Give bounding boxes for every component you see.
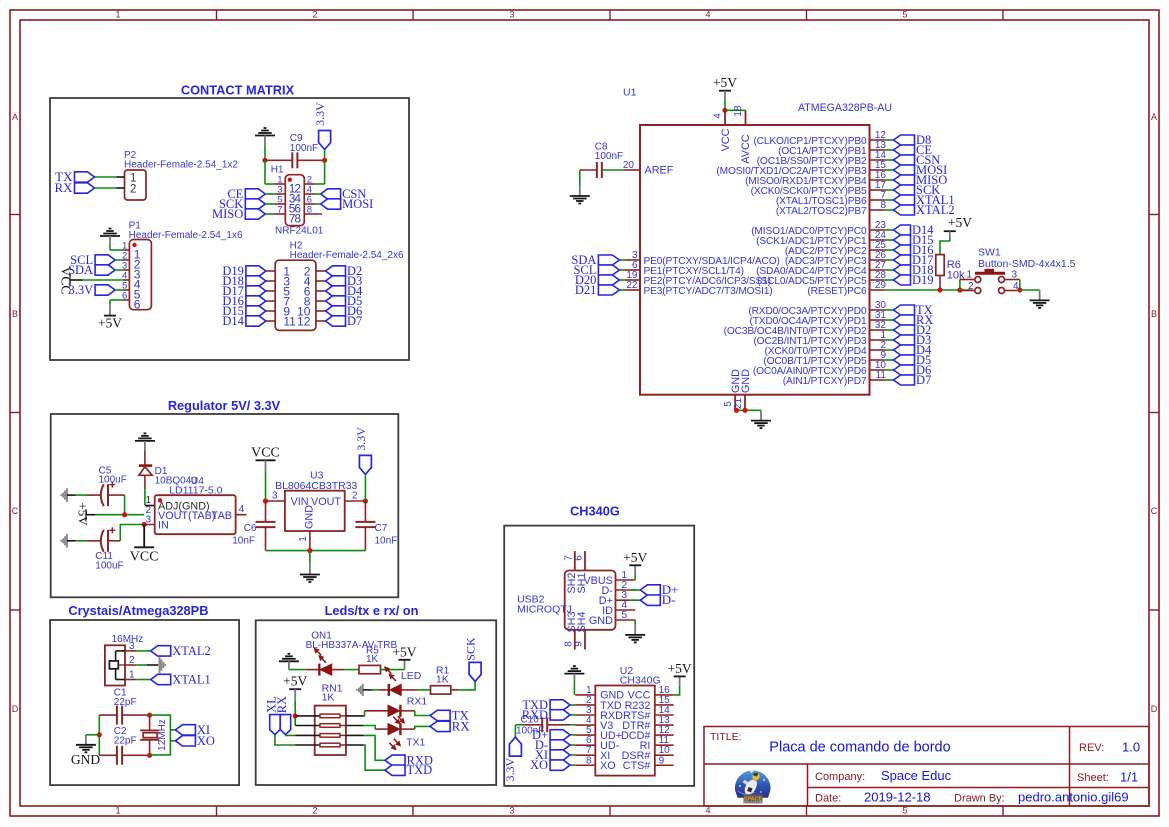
svg-text:VCC: VCC <box>251 446 280 461</box>
svg-text:16MHz: 16MHz <box>112 634 144 645</box>
svg-text:PE3(PTCY/ADC7/T3/MOSI1): PE3(PTCY/ADC7/T3/MOSI1) <box>644 286 773 297</box>
svg-text:VCC: VCC <box>130 550 159 565</box>
svg-text:D19: D19 <box>912 273 934 287</box>
svg-text:1: 1 <box>115 10 120 20</box>
svg-text:7: 7 <box>277 205 282 216</box>
svg-text:ATMEGA328PB-AU: ATMEGA328PB-AU <box>798 102 892 114</box>
svg-text:RX: RX <box>54 180 73 195</box>
svg-text:BL-HB337A-AV-TRB: BL-HB337A-AV-TRB <box>306 640 398 651</box>
svg-text:RX: RX <box>275 696 289 713</box>
svg-text:1: 1 <box>298 536 309 542</box>
svg-text:LED: LED <box>401 670 422 682</box>
svg-text:100nF: 100nF <box>595 151 623 162</box>
svg-text:CONTACT MATRIX: CONTACT MATRIX <box>181 83 295 98</box>
svg-text:2: 2 <box>352 490 358 501</box>
svg-text:1K: 1K <box>322 692 335 704</box>
svg-text:Button-SMD-4x4x1.5: Button-SMD-4x4x1.5 <box>978 258 1076 270</box>
svg-text:Leds/tx e rx/ on: Leds/tx e rx/ on <box>325 603 419 618</box>
svg-text:9: 9 <box>574 641 585 647</box>
svg-text:1K: 1K <box>436 674 449 686</box>
svg-text:TITLE:: TITLE: <box>710 731 742 743</box>
svg-text:+5V: +5V <box>392 644 416 659</box>
svg-text:NRF24L01: NRF24L01 <box>275 226 324 237</box>
svg-text:22pF: 22pF <box>114 736 137 747</box>
svg-text:D: D <box>1151 704 1158 714</box>
svg-text:C7: C7 <box>375 523 388 534</box>
svg-text:Date:: Date: <box>815 793 841 805</box>
svg-text:CH340G: CH340G <box>620 674 661 686</box>
svg-text:Header-Female-2.54_1x2: Header-Female-2.54_1x2 <box>124 160 238 171</box>
svg-text:3: 3 <box>509 10 514 20</box>
svg-text:U1: U1 <box>623 87 637 99</box>
svg-text:MICROQTJ: MICROQTJ <box>517 604 572 616</box>
svg-text:(RESET)PC6: (RESET)PC6 <box>807 286 867 297</box>
svg-text:XTAL1: XTAL1 <box>172 673 211 687</box>
svg-text:Regulator 5V/ 3.3V: Regulator 5V/ 3.3V <box>168 398 281 413</box>
svg-text:GND: GND <box>71 752 100 767</box>
svg-text:18: 18 <box>733 105 744 117</box>
svg-text:3.3V: 3.3V <box>354 427 368 451</box>
svg-text:12: 12 <box>297 314 311 328</box>
svg-text:+5V: +5V <box>283 674 307 689</box>
svg-text:MOSI: MOSI <box>342 197 373 211</box>
svg-text:1K: 1K <box>366 654 379 665</box>
svg-text:100uF: 100uF <box>99 475 127 486</box>
svg-text:GND: GND <box>589 615 613 627</box>
svg-text:RX: RX <box>452 718 471 733</box>
svg-text:(XTAL2/TOSC2)PB7: (XTAL2/TOSC2)PB7 <box>776 206 867 217</box>
svg-text:Sheet:: Sheet: <box>1077 772 1109 784</box>
svg-text:1: 1 <box>967 270 973 281</box>
svg-text:100uF: 100uF <box>95 560 123 571</box>
svg-text:+5V: +5V <box>713 75 737 90</box>
svg-text:+5V: +5V <box>623 550 647 565</box>
svg-text:5: 5 <box>902 10 907 20</box>
svg-text:10nF: 10nF <box>375 536 398 547</box>
svg-text:1: 1 <box>115 806 120 816</box>
svg-text:12MHz: 12MHz <box>157 719 168 751</box>
svg-text:+5V: +5V <box>98 316 122 331</box>
svg-text:D14: D14 <box>222 314 244 328</box>
svg-text:22: 22 <box>626 280 638 291</box>
svg-text:pedro.antonio.gil69: pedro.antonio.gil69 <box>1018 790 1129 805</box>
svg-text:3: 3 <box>1012 270 1018 281</box>
svg-text:3: 3 <box>272 490 278 501</box>
svg-text:XTAL2: XTAL2 <box>172 644 211 658</box>
svg-text:C10: C10 <box>521 715 540 726</box>
svg-text:6: 6 <box>134 298 141 312</box>
svg-text:+5V: +5V <box>668 661 692 676</box>
svg-text:2: 2 <box>312 806 317 816</box>
svg-text:+5V: +5V <box>948 215 972 230</box>
svg-text:REV:: REV: <box>1079 742 1104 754</box>
svg-text:29: 29 <box>875 280 887 291</box>
svg-text:1: 1 <box>129 670 135 681</box>
svg-text:AVCC: AVCC <box>740 134 752 163</box>
svg-text:B: B <box>1151 309 1157 319</box>
svg-text:4: 4 <box>1013 281 1019 292</box>
svg-text:D: D <box>12 704 19 714</box>
svg-text:3.3V: 3.3V <box>68 283 93 297</box>
svg-text:4: 4 <box>239 504 245 515</box>
svg-text:Space Educ: Space Educ <box>881 768 952 783</box>
svg-text:+5V: +5V <box>75 502 90 526</box>
svg-text:C: C <box>1151 506 1158 516</box>
svg-text:TAB: TAB <box>212 510 232 522</box>
svg-text:EDUCATION: EDUCATION <box>744 801 763 805</box>
svg-text:C6: C6 <box>244 523 257 534</box>
svg-text:SH4: SH4 <box>576 611 588 632</box>
svg-text:TXD: TXD <box>407 763 433 777</box>
svg-text:10nF: 10nF <box>232 536 255 547</box>
svg-text:RX1: RX1 <box>407 696 428 708</box>
svg-text:3: 3 <box>509 806 514 816</box>
svg-text:9: 9 <box>659 755 665 766</box>
svg-text:21: 21 <box>733 398 744 410</box>
svg-text:4: 4 <box>713 113 724 119</box>
svg-text:SCK: SCK <box>464 637 478 661</box>
svg-text:2: 2 <box>312 10 317 20</box>
svg-text:D7: D7 <box>347 314 362 328</box>
svg-text:MISO: MISO <box>212 207 243 221</box>
svg-text:2: 2 <box>968 281 974 292</box>
svg-text:XO: XO <box>197 734 215 748</box>
svg-text:D7: D7 <box>916 373 931 387</box>
svg-text:5: 5 <box>622 610 628 621</box>
svg-text:11: 11 <box>283 314 296 328</box>
svg-text:CTS#: CTS# <box>623 760 651 772</box>
svg-text:IN: IN <box>158 520 169 532</box>
svg-text:100nF: 100nF <box>290 143 318 154</box>
svg-text:1/1: 1/1 <box>1120 770 1138 785</box>
svg-text:(AIN1/PTCXY)PD7: (AIN1/PTCXY)PD7 <box>783 376 867 387</box>
svg-text:3: 3 <box>129 641 135 652</box>
svg-text:3.3V: 3.3V <box>503 757 517 781</box>
svg-text:Company:: Company: <box>815 771 865 783</box>
svg-text:A: A <box>1151 112 1157 122</box>
svg-text:XO: XO <box>530 758 548 772</box>
svg-text:GND: GND <box>740 369 752 393</box>
svg-text:D21: D21 <box>575 283 597 297</box>
svg-text:Drawn By:: Drawn By: <box>954 793 1005 805</box>
svg-text:C: C <box>12 506 19 516</box>
svg-text:6: 6 <box>574 555 585 561</box>
svg-text:CH340G: CH340G <box>570 504 620 519</box>
svg-text:VCC: VCC <box>720 128 732 151</box>
svg-text:8: 8 <box>586 755 592 766</box>
svg-text:GND: GND <box>304 505 316 529</box>
svg-text:3.3V: 3.3V <box>313 102 327 126</box>
svg-text:8: 8 <box>294 212 301 226</box>
svg-text:4: 4 <box>705 10 710 20</box>
svg-text:AREF: AREF <box>645 165 674 177</box>
svg-text:B: B <box>12 309 18 319</box>
svg-text:TX1: TX1 <box>406 736 425 748</box>
svg-text:XO: XO <box>600 760 616 772</box>
svg-text:SW1: SW1 <box>978 247 1001 259</box>
svg-text:2: 2 <box>130 184 136 196</box>
svg-text:1.0: 1.0 <box>1122 740 1140 755</box>
svg-text:4: 4 <box>705 806 710 816</box>
svg-text:Crystais/Atmega328PB: Crystais/Atmega328PB <box>68 603 208 618</box>
svg-text:VOUT: VOUT <box>311 496 341 508</box>
svg-text:5: 5 <box>902 806 907 816</box>
svg-text:20: 20 <box>623 160 635 171</box>
svg-text:A: A <box>12 112 18 122</box>
svg-text:D-: D- <box>662 592 676 607</box>
svg-text:2: 2 <box>129 655 135 666</box>
svg-text:2019-12-18: 2019-12-18 <box>864 790 931 805</box>
svg-text:Placa de comando de bordo: Placa de comando de bordo <box>769 740 950 756</box>
